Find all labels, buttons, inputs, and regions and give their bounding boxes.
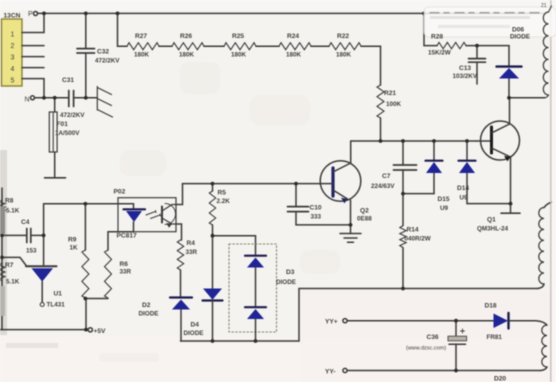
svg-text:R21: R21: [384, 90, 396, 97]
node R21 bottom: [379, 139, 383, 143]
opto light arrows: [146, 210, 161, 219]
wire: [159, 45, 172, 47]
svg-text:R25: R25: [232, 33, 244, 40]
svg-text:C4: C4: [21, 219, 30, 226]
svg-text:C13: C13: [459, 65, 471, 72]
wire opto emitter drop: [176, 224, 182, 240]
resistor R7: [0, 263, 5, 281]
wire +5V rail: [0, 329, 87, 331]
capacitor C36: [448, 321, 467, 371]
wire: [466, 45, 509, 47]
node left R8R7 a: [0, 234, 4, 238]
node 5V: [84, 328, 88, 332]
svg-text:+5V: +5V: [94, 328, 107, 335]
svg-text:R26: R26: [180, 33, 192, 40]
wire output rail: [299, 288, 538, 290]
wire D15 bottom link: [403, 193, 434, 195]
svg-text:DIODE: DIODE: [276, 279, 296, 286]
node low rail D3: [254, 339, 258, 343]
fuse F01: [45, 98, 66, 178]
svg-text:153: 153: [26, 248, 37, 255]
svg-text:DIODE: DIODE: [139, 311, 159, 318]
svg-text:TL431: TL431: [47, 302, 66, 309]
svg-text:15K/2W: 15K/2W: [428, 50, 451, 57]
wire: [204, 45, 224, 47]
terminal YY-: [343, 368, 347, 372]
chassis ground: [97, 87, 112, 118]
diode D15: [426, 141, 443, 194]
terminal P: [34, 12, 38, 16]
transistor Q2: [320, 141, 361, 234]
node C7 bottom: [401, 192, 405, 196]
svg-text:2.2K: 2.2K: [217, 198, 231, 205]
terminal N: [31, 96, 35, 100]
svg-text:C32: C32: [97, 49, 109, 56]
svg-text:R7: R7: [5, 262, 14, 269]
svg-text:33R: 33R: [120, 269, 132, 276]
left edge artifact blobs: [0, 206, 58, 348]
node C4: [42, 234, 46, 238]
svg-text:U1: U1: [54, 291, 63, 298]
wire low rail: [181, 340, 300, 342]
svg-text:(www.dzsc.com): (www.dzsc.com): [406, 346, 446, 352]
diode D14: [459, 141, 511, 204]
inductor T1 secondary low: [536, 321, 547, 371]
wire drop to low rail: [298, 289, 300, 342]
svg-text:0E88: 0E88: [357, 216, 372, 223]
wire YY+ rail: [347, 320, 493, 322]
resistor R24: [279, 43, 311, 50]
svg-text:D06: D06: [512, 27, 524, 34]
node D4 tap: [211, 234, 215, 238]
node C36 top: [454, 319, 458, 323]
svg-text:4: 4: [11, 66, 15, 73]
svg-text:180K: 180K: [231, 52, 247, 59]
wire YY- rail: [347, 370, 540, 372]
wire top rail: [38, 12, 547, 14]
svg-text:13CN: 13CN: [4, 13, 21, 20]
node chain riser: [116, 12, 120, 16]
diode D18: [494, 313, 537, 329]
wire opto feed riser: [43, 204, 45, 265]
svg-text:180K: 180K: [134, 52, 150, 59]
wire pin2 stub: [22, 45, 44, 47]
capacitor C7: [394, 141, 417, 194]
svg-text:P: P: [28, 11, 33, 18]
node fuse tap: [53, 96, 57, 100]
opto LED: [108, 209, 145, 250]
resistor R21: [377, 85, 384, 118]
label pin numbers: [11, 32, 15, 85]
resistor R27: [127, 43, 159, 50]
wire opto anode feed: [44, 204, 134, 208]
wire to rectifier box: [213, 236, 256, 255]
svg-text:C31: C31: [62, 77, 74, 84]
wire opto collector riser: [176, 184, 183, 205]
svg-text:Q1: Q1: [487, 217, 496, 224]
resistor R28: [437, 42, 466, 48]
transistor Q1: [476, 121, 520, 213]
capacitor C4: [2, 229, 44, 243]
wire: [311, 45, 329, 47]
svg-text:D3: D3: [286, 269, 295, 276]
wire collector node: [509, 98, 545, 124]
svg-text:R24: R24: [287, 33, 299, 40]
svg-text:F01: F01: [57, 121, 69, 128]
svg-text:333: 333: [311, 214, 322, 221]
wire top rail remnant dashes: [430, 12, 540, 14]
resistor R25: [224, 43, 256, 50]
capacitor C32: [77, 13, 95, 97]
diode D2: [170, 298, 192, 342]
capacitor C10: [288, 184, 351, 225]
diode D4: [203, 289, 223, 342]
node D06 out: [507, 96, 511, 100]
node out rail R14: [401, 287, 405, 291]
wire pin5 stub: [22, 79, 44, 98]
svg-text:R4: R4: [187, 240, 196, 247]
svg-text:DIODE: DIODE: [510, 34, 530, 41]
svg-text:2: 2: [11, 43, 15, 50]
svg-text:P02: P02: [114, 189, 126, 196]
node C7 top: [401, 139, 405, 143]
wire pin3 stub: [22, 56, 44, 58]
resistor R8: [0, 200, 5, 214]
svg-text:040R/2W: 040R/2W: [405, 236, 431, 243]
optocoupler U2 PC817 box: [118, 198, 176, 232]
terminal +5V: [88, 328, 92, 332]
node C10 base: [294, 182, 298, 186]
svg-text:R27: R27: [135, 33, 147, 40]
svg-text:1K: 1K: [70, 245, 79, 252]
resistor R5: [209, 184, 215, 289]
wire: [256, 45, 279, 47]
paper blotches: [99, 62, 340, 362]
wire pin4 stub: [22, 67, 44, 69]
photo right edge: [551, 0, 556, 382]
node C32 top: [84, 12, 88, 16]
wire snubber riser: [424, 13, 437, 45]
svg-text:U9: U9: [460, 195, 469, 202]
resistor R22: [329, 43, 361, 50]
resistor R14: [400, 194, 406, 289]
terminal YY+: [343, 319, 347, 323]
wire: [361, 46, 381, 85]
capacitor C13: [469, 46, 486, 84]
connector CN1 13CN body: [2, 19, 23, 86]
svg-text:D15: D15: [438, 196, 450, 203]
wire base rail Q2: [183, 183, 334, 185]
wire divider drop: [85, 204, 108, 330]
svg-text:5.1K: 5.1K: [6, 279, 20, 286]
node N pin5: [42, 96, 46, 100]
node D14 top: [465, 139, 469, 143]
svg-text:21: 21: [541, 3, 547, 9]
svg-text:YY+: YY+: [325, 319, 338, 326]
svg-text:R8: R8: [5, 198, 14, 205]
diode D3b: [245, 307, 266, 341]
svg-text:472/2KV: 472/2KV: [60, 112, 85, 119]
diode D06: [497, 46, 522, 98]
svg-text:33R: 33R: [186, 249, 198, 256]
wire ref link: [2, 257, 27, 266]
watermark overlay top right: [424, 3, 556, 37]
svg-text:PC817: PC817: [117, 233, 137, 240]
svg-text:D20: D20: [494, 376, 506, 382]
svg-text:N: N: [25, 97, 30, 104]
svg-text:FR81: FR81: [487, 334, 503, 341]
svg-text:472/2KV: 472/2KV: [95, 58, 120, 65]
node C13: [475, 44, 479, 48]
node divider: [84, 297, 88, 301]
svg-text:R6: R6: [120, 261, 129, 268]
resistor R9: [82, 250, 89, 298]
svg-text:Q2: Q2: [360, 208, 369, 215]
node emitter Q1: [509, 202, 513, 206]
node left R8R7 b: [0, 256, 4, 260]
wire: [180, 270, 182, 297]
node emitter Q2: [349, 223, 353, 227]
node R9 top: [84, 202, 88, 206]
svg-text:QM3HL-24: QM3HL-24: [477, 226, 509, 233]
svg-text:R9: R9: [68, 237, 77, 244]
wire N rail: [35, 97, 98, 99]
wire mid rail: [351, 140, 476, 142]
wire pin1 stub: [22, 13, 44, 32]
svg-text:YY-: YY-: [325, 369, 336, 376]
wire left rail: [1, 188, 3, 330]
node snubber: [422, 12, 426, 16]
svg-text:224/63V: 224/63V: [371, 183, 395, 190]
svg-text:180K: 180K: [179, 52, 195, 59]
node low rail D4: [211, 339, 215, 343]
opto phototransistor: [162, 204, 176, 228]
svg-text:5: 5: [11, 78, 15, 85]
node R5 base: [211, 182, 215, 186]
svg-text:DIODE: DIODE: [184, 330, 204, 337]
svg-text:R5: R5: [218, 190, 227, 197]
svg-text:100K: 100K: [386, 101, 402, 108]
svg-text:R22: R22: [337, 33, 349, 40]
resistor R4: [177, 240, 183, 270]
U1 TL431: [26, 266, 57, 306]
diode D3a: [245, 256, 266, 307]
svg-text:C7: C7: [382, 173, 391, 180]
svg-text:U9: U9: [440, 205, 449, 212]
node C32 bottom: [84, 96, 88, 100]
svg-text:D18: D18: [485, 303, 497, 310]
capacitor C31: [69, 91, 74, 107]
svg-text:5.1K: 5.1K: [6, 208, 20, 215]
svg-text:R14: R14: [407, 227, 419, 234]
svg-text:D4: D4: [191, 322, 200, 329]
svg-text:C36: C36: [427, 334, 439, 341]
rectifier dotted box: [229, 244, 277, 332]
node C36 bottom: [454, 369, 458, 373]
svg-text:D14: D14: [457, 185, 469, 192]
svg-text:180K: 180K: [286, 52, 302, 59]
svg-text:103/2KV: 103/2KV: [453, 73, 478, 80]
svg-text:1: 1: [11, 32, 15, 39]
inductor T1 primary: [549, 6, 552, 12]
node top pin1: [42, 12, 46, 16]
svg-text:3: 3: [11, 55, 15, 62]
svg-text:D2: D2: [142, 302, 151, 309]
wire: [380, 118, 382, 141]
inductor T1 secondary mid: [538, 202, 552, 289]
resistor R26: [172, 43, 204, 50]
wire chain riser: [118, 13, 128, 46]
svg-text:1A/500V: 1A/500V: [55, 130, 80, 137]
resistor R6: [105, 250, 112, 298]
ground Q2: [340, 234, 361, 243]
node D15 top: [432, 139, 436, 143]
svg-text:R28: R28: [431, 34, 443, 41]
svg-text:C10: C10: [310, 205, 322, 212]
ground Q1 bar: [501, 212, 520, 214]
svg-text:180K: 180K: [336, 52, 352, 59]
